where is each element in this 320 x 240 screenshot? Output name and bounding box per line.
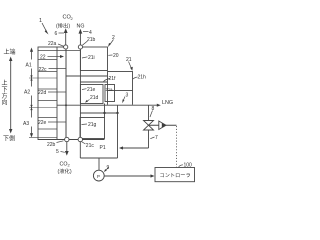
funnel right edge	[132, 91, 134, 105]
dimension double arrow left	[10, 59, 12, 131]
wire CO2 liquid outlet	[66, 142, 68, 153]
leader 3 arrow	[122, 97, 125, 104]
svg-text:3: 3	[126, 93, 129, 99]
valve bowtie 8	[144, 121, 154, 131]
label 1 apparatus	[42, 23, 49, 35]
svg-text:4: 4	[89, 30, 92, 36]
wire pump drop	[98, 158, 100, 170]
arrowhead CO2 up	[64, 28, 68, 33]
svg-text:下側: 下側	[3, 134, 15, 142]
svg-text:P1: P1	[100, 145, 106, 151]
svg-text:2: 2	[112, 35, 115, 41]
svg-text:P: P	[97, 174, 100, 179]
wire right drop x117.5 to sump	[117, 113, 119, 158]
wire valve feed	[148, 105, 150, 120]
leader 22 arrow	[48, 55, 65, 58]
bottom header line	[38, 139, 105, 141]
svg-text:21a: 21a	[106, 87, 114, 92]
dimension line A1 A2 A3	[31, 50, 33, 136]
leader 22e	[48, 121, 66, 123]
leader 4	[83, 31, 89, 33]
wire valve outlet down	[148, 130, 150, 148]
svg-text:A2: A2	[24, 90, 30, 96]
leader 21d arrow	[85, 100, 90, 103]
bed A3 top	[38, 117, 57, 119]
svg-text:7: 7	[155, 135, 158, 141]
svg-text:21b: 21b	[87, 37, 96, 43]
svg-text:(排出): (排出)	[56, 21, 70, 29]
leader 6	[59, 32, 65, 34]
leader 22d	[48, 91, 66, 93]
svg-text:向: 向	[2, 99, 8, 107]
leader 21c	[82, 142, 86, 144]
pipe column to tall box y76	[66, 75, 108, 77]
svg-text:21h: 21h	[138, 75, 147, 81]
wire to P1 arrow	[122, 147, 149, 149]
leader 5	[61, 151, 65, 154]
svg-text:上端: 上端	[4, 48, 16, 56]
leader 8	[150, 111, 153, 118]
leader 21g	[82, 123, 88, 126]
pipe riser to tall box y82	[80, 81, 107, 83]
dim arrow bottom	[30, 133, 33, 137]
leader 9 arrow	[104, 168, 109, 173]
junction dot 117.5,113	[116, 112, 118, 114]
leader 22c	[49, 68, 66, 70]
svg-text:CO: CO	[60, 161, 68, 167]
column inner wall	[56, 47, 58, 140]
junction circle top right	[78, 45, 82, 49]
wire NG riser	[79, 33, 81, 47]
arrowhead NG up	[79, 29, 83, 34]
leader 21i	[82, 57, 88, 58]
dim tick y107.5	[29, 107, 57, 109]
svg-text:22e: 22e	[38, 120, 47, 126]
svg-text:方: 方	[2, 92, 8, 100]
svg-text:A3: A3	[23, 121, 29, 127]
svg-text:(液化): (液化)	[58, 167, 72, 175]
leader 100	[179, 165, 184, 168]
svg-text:21d: 21d	[90, 95, 99, 101]
svg-text:22c: 22c	[39, 67, 48, 73]
wire pump to controller	[104, 175, 152, 177]
arrowhead P1 left	[119, 146, 123, 149]
junction circle bottom left	[65, 137, 69, 141]
bed A1 bottom	[38, 71, 57, 73]
leader 21e	[82, 88, 87, 91]
svg-text:5: 5	[56, 149, 59, 155]
junction dot 104.5,113	[103, 112, 105, 114]
svg-text:21e: 21e	[87, 87, 96, 93]
wire valve to signal corner	[149, 124, 177, 126]
junction dot LNG-column	[65, 104, 67, 106]
wire LNG main line	[57, 104, 159, 106]
svg-text:21c: 21c	[86, 143, 95, 149]
dim tick y137.5	[29, 136, 57, 138]
dim tick y78	[29, 77, 57, 79]
pump circle 9	[93, 170, 104, 181]
leader 21b	[82, 41, 87, 45]
svg-text:A1: A1	[26, 63, 32, 69]
svg-text:20: 20	[113, 53, 119, 59]
sump vessel	[80, 140, 117, 159]
bed A2 top	[38, 88, 57, 90]
svg-text:22b: 22b	[47, 142, 56, 148]
bed A1 top	[38, 59, 57, 61]
svg-text:1: 1	[39, 18, 42, 24]
valve actuator triangle	[159, 121, 166, 130]
leader 22b	[57, 141, 64, 143]
svg-text:6: 6	[55, 31, 58, 37]
junction circle bottom right	[78, 137, 82, 141]
column top tray	[38, 50, 80, 52]
svg-text:下: 下	[2, 87, 8, 94]
dim arrow top	[30, 48, 33, 52]
column 22 outer shell	[38, 47, 66, 140]
box 21a	[105, 85, 115, 102]
leader 7	[150, 137, 154, 139]
svg-text:8: 8	[152, 106, 155, 112]
bed A3 bottom	[38, 128, 57, 130]
svg-text:21i: 21i	[88, 55, 95, 61]
wire signal dotted down	[176, 126, 178, 167]
leader 21 arrow	[129, 62, 133, 71]
pipe riser x80.4	[79, 47, 81, 140]
svg-text:NG: NG	[77, 23, 85, 29]
arrowhead CO2 liquid down	[65, 151, 69, 156]
box 21e 21d	[80, 85, 103, 104]
tall box 21h	[108, 72, 133, 91]
wire manifold y113	[80, 112, 117, 114]
box 21g	[80, 118, 105, 139]
leader 21f	[104, 79, 111, 82]
junction circle top left	[64, 45, 68, 49]
bed A2 bottom	[38, 100, 57, 102]
actuator dark tip	[162, 123, 166, 128]
svg-text:9: 9	[107, 165, 110, 171]
controller box	[155, 168, 195, 182]
arrowhead into controller	[151, 174, 155, 177]
svg-text:21f: 21f	[109, 76, 117, 82]
svg-text:21g: 21g	[88, 122, 97, 128]
leader 20	[108, 54, 112, 56]
funnel left edge	[107, 91, 109, 105]
wire CO2 discharge riser	[65, 31, 67, 47]
wire stub x104.5 boxes to manifold	[104, 104, 106, 118]
arrowhead LNG	[157, 104, 161, 107]
dim arrows y78	[30, 75, 32, 80]
svg-text:上: 上	[2, 79, 8, 87]
svg-text:コントローラ: コントローラ	[160, 172, 191, 179]
leader 22a	[58, 44, 64, 46]
svg-text:22a: 22a	[48, 41, 57, 47]
dim arrows y107.5	[30, 105, 32, 110]
svg-text:22: 22	[40, 55, 46, 61]
svg-text:100: 100	[184, 162, 193, 168]
leader 2 with arrowhead	[108, 40, 114, 48]
box 21i	[80, 47, 107, 71]
pipe column right edge extension x66	[65, 47, 67, 140]
wire branch down from LNG line x117.5	[117, 105, 119, 113]
svg-text:LNG: LNG	[162, 100, 173, 106]
svg-text:21: 21	[126, 57, 132, 63]
svg-text:22d: 22d	[38, 90, 47, 96]
leader 21h	[133, 77, 138, 79]
